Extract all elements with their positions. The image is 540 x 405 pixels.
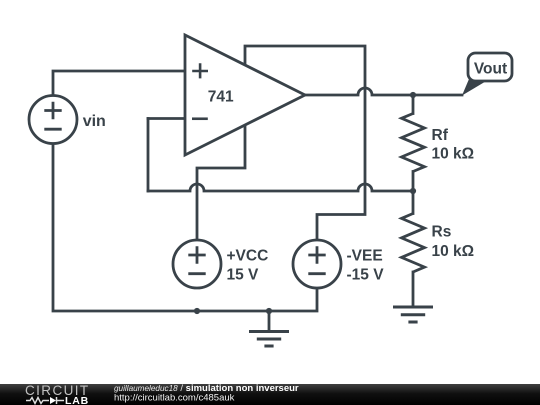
- svg-text:LAB: LAB: [65, 395, 89, 405]
- voltage source +VCC: [173, 240, 221, 288]
- svg-text:-VEE: -VEE: [347, 248, 383, 265]
- wire feedback horizontal to node B with hops over verticals: [148, 184, 413, 191]
- ground G2 at bottom rail: [249, 332, 289, 347]
- wire Rs bottom to ground G1: [412, 272, 415, 307]
- svg-text:vin: vin: [83, 113, 106, 130]
- wire vin bottom rail to -VEE bottom terminal: [53, 144, 317, 312]
- svg-text:http://circuitlab.com/c485auk: http://circuitlab.com/c485auk: [114, 393, 235, 404]
- wire Rf bottom to node B: [412, 172, 415, 192]
- svg-text:Rf: Rf: [432, 127, 449, 144]
- svg-text:15 V: 15 V: [227, 267, 260, 284]
- node B junction dot (feedback node): [410, 188, 416, 194]
- wire op-amp V+ pin to -VEE top terminal: [245, 46, 365, 240]
- svg-text:741: 741: [208, 89, 234, 106]
- resistor Rs: [402, 214, 425, 273]
- svg-text:Rs: Rs: [432, 224, 452, 241]
- wire op-amp output to node A with hop: [305, 88, 413, 95]
- resistor Rf: [402, 114, 425, 172]
- svg-text:+VCC: +VCC: [227, 248, 269, 265]
- net flag Vout: [462, 53, 512, 96]
- ground G1 under Rs: [393, 307, 433, 322]
- wire op-amp V- pin to +VCC top terminal: [197, 126, 245, 241]
- wire vin top to op-amp non-inverting input: [53, 71, 185, 96]
- svg-text:10 kΩ: 10 kΩ: [432, 243, 475, 260]
- svg-text:10 kΩ: 10 kΩ: [432, 146, 475, 163]
- node A junction dot (output node): [410, 92, 416, 98]
- wire node A to Rf top: [412, 95, 415, 114]
- wire feedback vertical from inverting input down: [147, 119, 150, 192]
- CircuitLab logo: [25, 383, 90, 405]
- node C junction dot (+VCC bottom): [194, 308, 200, 314]
- voltage source vin: [29, 96, 77, 144]
- wire node A to Vout flag tail: [413, 94, 462, 97]
- node D junction dot (ground stub): [266, 308, 272, 314]
- wire op-amp inverting input stub: [148, 117, 185, 120]
- wire ground stub at node D: [268, 311, 271, 332]
- wire node B to Rs top: [412, 191, 415, 214]
- op-amp U1 741: [185, 35, 305, 155]
- svg-text:-15 V: -15 V: [347, 267, 385, 284]
- voltage source -VEE: [293, 240, 341, 288]
- svg-text:Vout: Vout: [474, 60, 507, 77]
